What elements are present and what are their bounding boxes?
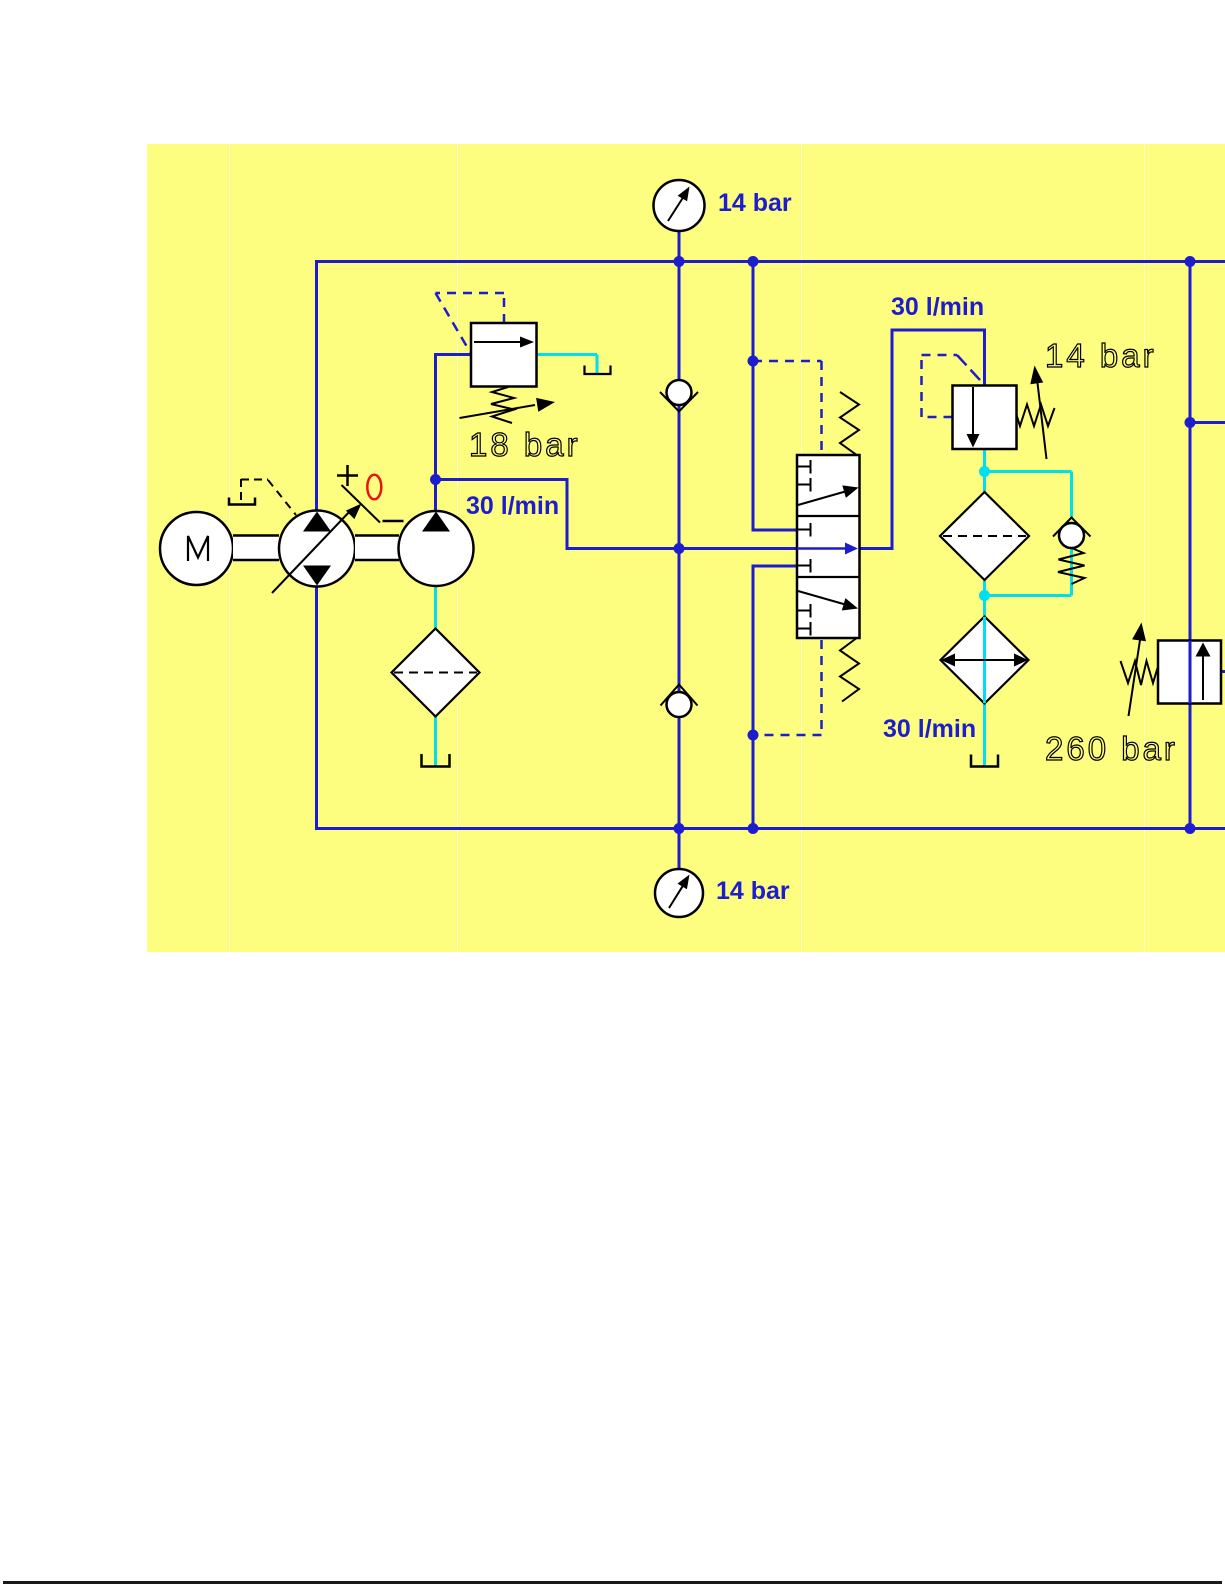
node bypass bottom <box>979 590 990 601</box>
wire pump outlet to relief valve <box>434 353 471 481</box>
check valve CV2 <box>661 685 698 718</box>
label 260 bar <box>1045 730 1178 767</box>
pressure gauge bottom <box>655 869 703 917</box>
tank line filter to tank <box>434 715 437 766</box>
wire center vertical (gauge/check line) <box>678 231 681 829</box>
wire bottom gauge stem <box>678 829 681 871</box>
wire through relief valve 260 <box>1189 641 1192 704</box>
wire P supply to valve <box>434 478 797 549</box>
node bottom bus right <box>1185 823 1196 834</box>
tank symbol relief valve <box>585 366 611 375</box>
variable displacement pump P1 <box>272 504 362 594</box>
node bottom bus valve <box>748 823 759 834</box>
relief valve V4 spring <box>1121 661 1158 685</box>
svg-text:260 bar: 260 bar <box>1045 730 1178 767</box>
tank line cooler to tank <box>983 702 986 766</box>
pressure reducing valve V3 <box>953 366 1055 460</box>
label 14 bar bottom <box>716 877 790 905</box>
svg-text:14 bar: 14 bar <box>716 877 790 905</box>
wire valve B-port branch <box>753 565 797 829</box>
wire right vertical bus <box>1189 260 1192 829</box>
label 14 bar reducing <box>1045 337 1157 374</box>
label 30 l/min pump <box>466 492 559 520</box>
label 14 bar top <box>718 189 792 217</box>
pilot line dashed relief valve 18 bar <box>436 293 505 352</box>
check valve CV3 spring loaded <box>1053 518 1091 585</box>
node pump outlet junction <box>430 474 441 485</box>
node bypass top <box>979 466 990 477</box>
wire valve P out to reducing valve <box>858 329 985 551</box>
wire bottom bus T-line <box>317 827 1225 830</box>
wire pump top stub <box>434 480 437 513</box>
node right branch <box>1185 417 1196 428</box>
heat exchanger cooler <box>941 617 1029 704</box>
node top bus gauge <box>674 256 685 267</box>
label 30 l/min return <box>883 715 976 743</box>
tank line reducing valve down <box>983 448 986 493</box>
wire top bus P-line <box>317 260 1225 263</box>
valve spring top <box>840 392 859 455</box>
node top bus valve branch <box>748 256 759 267</box>
electric motor M1 <box>160 512 233 585</box>
shaft motor to pump <box>233 536 279 561</box>
pilot line dashed to valve bottom <box>753 640 822 735</box>
label 30 l/min valve out <box>891 293 984 321</box>
pilot line dashed to valve top <box>753 361 822 453</box>
relief valve V4 arrow <box>1196 643 1211 701</box>
check valve CV1 <box>660 380 698 412</box>
wire branch right at junction <box>1190 421 1225 424</box>
tank symbol T1 <box>422 754 450 767</box>
label 18 bar <box>469 426 581 463</box>
node pilot branch <box>748 356 759 367</box>
filter F2 <box>940 492 1029 580</box>
bypass line to check valve <box>985 472 1072 519</box>
wire left vertical bus <box>315 260 318 830</box>
svg-text:14 bar: 14 bar <box>718 189 792 217</box>
svg-text:14 bar: 14 bar <box>1045 337 1157 374</box>
relief valve V4 adjust arrow <box>1129 623 1147 717</box>
svg-text:30 l/min: 30 l/min <box>466 492 559 520</box>
fixed pump P2 <box>399 511 474 586</box>
wire relief valve 260 tank stub <box>1221 670 1225 673</box>
pilot line dashed reducing valve <box>922 355 985 417</box>
bypass line check valve to node <box>985 547 1072 596</box>
node pilot bottom <box>748 730 759 741</box>
tank line between filter and cooler <box>983 579 986 618</box>
relief valve V1 18 bar <box>460 323 556 423</box>
tank symbol T2 <box>971 755 998 767</box>
wire valve A-port branch <box>752 260 798 530</box>
manual control lever <box>229 479 296 515</box>
node P center <box>674 543 685 554</box>
filter F1 <box>392 629 480 717</box>
node top bus right <box>1185 256 1196 267</box>
setpoint scale plus zero minus <box>337 465 404 523</box>
relief valve V4 260 bar box <box>1158 641 1221 704</box>
tank line pump2 to filter <box>434 585 437 630</box>
tank line relief 18 bar <box>535 355 597 374</box>
svg-text:30 l/min: 30 l/min <box>883 715 976 743</box>
pressure gauge top <box>654 180 705 231</box>
node bottom bus gauge <box>674 823 685 834</box>
svg-text:30 l/min: 30 l/min <box>891 293 984 321</box>
shaft pump to pump <box>355 536 399 561</box>
valve spring bottom <box>840 639 859 702</box>
svg-text:18 bar: 18 bar <box>469 426 581 463</box>
proportional directional valve V2 <box>797 455 860 638</box>
